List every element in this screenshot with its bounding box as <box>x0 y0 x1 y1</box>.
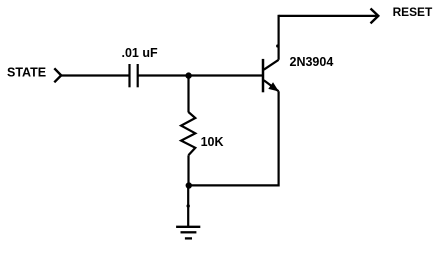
node junction B <box>186 182 192 188</box>
port arrow STATE <box>54 68 61 82</box>
svg-text:STATE: STATE <box>7 66 46 80</box>
node junction A <box>185 72 191 78</box>
junction mark on collector wire <box>276 44 279 47</box>
svg-text:10K: 10K <box>201 135 224 149</box>
wire <box>189 184 279 186</box>
capacitor C1 <box>130 64 138 87</box>
svg-text:.01 uF: .01 uF <box>122 46 158 60</box>
wire <box>61 74 129 76</box>
wire <box>187 155 189 185</box>
wire <box>187 186 189 227</box>
wire <box>278 15 280 60</box>
transistor Q1 2N3904 <box>263 59 279 92</box>
port arrow RESET <box>371 9 379 24</box>
wire <box>138 74 264 76</box>
junction mark on ground wire <box>187 204 190 207</box>
ground <box>176 227 200 239</box>
wire <box>279 15 379 17</box>
svg-text:RESET: RESET <box>393 5 433 19</box>
resistor R1 <box>181 112 195 155</box>
wire <box>278 91 280 186</box>
svg-text:2N3904: 2N3904 <box>290 55 334 69</box>
wire <box>187 76 189 113</box>
